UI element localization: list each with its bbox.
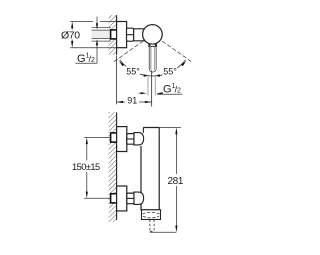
281 dimension bbox=[150, 128, 181, 233]
concealed supply pipe in wall bbox=[92, 28, 111, 41]
mixer body (side) bbox=[141, 128, 159, 210]
label G 1/2 (plan) bbox=[77, 53, 95, 66]
svg-text:281: 281 bbox=[168, 176, 184, 187]
bottom rosette (side) bbox=[117, 186, 127, 211]
top union hex (side) bbox=[127, 134, 134, 145]
lever swing extreme (dashed, left 55) bbox=[112, 41, 143, 63]
G 1/2 leader (plan outlet) bbox=[139, 92, 183, 94]
svg-text:91: 91 bbox=[127, 95, 137, 105]
bottom wall thread (side) bbox=[111, 194, 117, 203]
angular dimension arc bbox=[120, 60, 186, 76]
top rosette (side) bbox=[117, 127, 127, 152]
bottom union dome (side) bbox=[134, 192, 144, 204]
shower outlet block (side) bbox=[142, 210, 161, 220]
label G 1/2 (outlet) bbox=[163, 83, 181, 96]
arc arrowhead left inner bbox=[144, 74, 149, 77]
union hex nut (plan) bbox=[127, 28, 134, 41]
bottom union hex (side) bbox=[127, 193, 134, 204]
arc arrowhead right outer bbox=[181, 61, 186, 66]
svg-text:55°: 55° bbox=[126, 67, 140, 77]
mixer body circle (plan) bbox=[143, 25, 163, 45]
arc arrowhead right inner bbox=[155, 74, 160, 77]
arc arrowhead left outer bbox=[119, 61, 124, 66]
body neck stub above top union bbox=[142, 128, 144, 133]
svg-text:2: 2 bbox=[177, 87, 181, 94]
outlet centerline below lever bbox=[151, 71, 153, 107]
svg-text:150±15: 150±15 bbox=[72, 162, 100, 172]
91 dimension bbox=[117, 55, 152, 104]
svg-text:2: 2 bbox=[91, 57, 95, 64]
wall thread nipple (plan) bbox=[111, 30, 117, 39]
dia 70 dimension bbox=[70, 21, 116, 47]
outlet stem (hidden) bbox=[150, 220, 154, 232]
lever handle (plan, pointing down) bbox=[149, 44, 157, 72]
connection cylinder (plan) bbox=[134, 29, 145, 41]
wall (plan view, hatched) bbox=[109, 15, 117, 55]
lever swing extreme (dashed, right 55) bbox=[162, 41, 191, 61]
top wall thread (side) bbox=[111, 133, 117, 142]
escutcheon / rosette (plan) bbox=[117, 22, 127, 48]
svg-text:Ø70: Ø70 bbox=[61, 30, 80, 42]
150+-15 dimension bbox=[84, 137, 110, 198]
outlet thread silhouette lines bbox=[148, 77, 155, 96]
svg-text:G: G bbox=[163, 83, 172, 95]
svg-text:55°: 55° bbox=[163, 67, 177, 77]
top union dome (side) bbox=[134, 133, 144, 145]
G 1/2 leader (plan) bbox=[75, 17, 98, 64]
wall (side view, hatched) bbox=[109, 112, 117, 222]
svg-text:G: G bbox=[77, 53, 86, 65]
outlet hidden curves bbox=[143, 212, 160, 218]
